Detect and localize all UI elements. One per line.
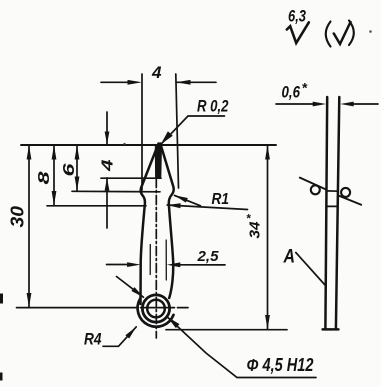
- pointer right edge: [160, 144, 173, 299]
- svg-text:0,6: 0,6: [282, 83, 301, 102]
- arrowhead leader R1 lower: [167, 203, 181, 208]
- arrowhead leader R1 upper: [174, 195, 188, 202]
- vertical centerline: [155, 179, 157, 339]
- ext lines of 2,5: [150, 240, 166, 280]
- arrowhead dim 6 top: [75, 145, 80, 160]
- hole circle d4.5: [147, 300, 165, 318]
- dim line 4 horizontal: [101, 81, 216, 83]
- ext lines of 4 horizontal: [141, 74, 143, 190]
- extension line 8 dim: [47, 205, 146, 207]
- dim 2,5 line: [107, 264, 226, 266]
- svg-text:*: *: [302, 80, 308, 96]
- dim 6 line: [76, 145, 78, 191]
- svg-text:R1: R1: [212, 191, 230, 208]
- dim 0,6 line: [276, 103, 378, 105]
- arrowhead dim 2,5 left: [127, 262, 141, 267]
- arrowhead dim 4 left: [128, 80, 143, 85]
- pointer left edge: [141, 144, 159, 305]
- arrowhead dim 0,6 left: [313, 102, 327, 107]
- roughness check 6,3: [287, 22, 309, 43]
- svg-text:2,5: 2,5: [196, 248, 219, 265]
- paren left: [326, 22, 331, 47]
- extension line bottom (34 dim): [166, 329, 287, 331]
- svg-text:A: A: [283, 247, 295, 268]
- svg-text:*: *: [246, 214, 251, 226]
- dim 34 line: [267, 145, 269, 330]
- svg-text:30: 30: [8, 206, 28, 228]
- leader R4 (shelf + diagonal): [103, 327, 136, 346]
- strip inner break ticks: [326, 191, 338, 207]
- svg-text:Φ 4,5 H12: Φ 4,5 H12: [247, 355, 314, 375]
- extension line tip-bottom (4 vert dim): [101, 177, 161, 179]
- check in parens: [334, 22, 351, 44]
- scan smudge left edge lower: [0, 373, 3, 381]
- speck right of parens: [369, 30, 372, 33]
- leader dia 4,5 H12: [167, 317, 316, 378]
- scan smudge left edge upper: [0, 294, 3, 304]
- arrowhead dim 30 bottom: [27, 293, 32, 308]
- break circle left: [311, 185, 320, 194]
- leader A: [296, 253, 326, 287]
- arrowhead dim 4vert upper: [105, 132, 110, 145]
- arrowhead leader R0,2: [161, 131, 173, 144]
- arrowhead dim 30 top: [27, 145, 32, 160]
- R4 arc: [138, 299, 174, 327]
- top reference line (tip level): [21, 144, 276, 146]
- arrowhead diagonal leader: [131, 287, 143, 297]
- horizontal centerline (also 30-dim lower extension): [17, 307, 189, 309]
- arrowhead dim 4vert lower: [105, 178, 110, 191]
- arrowhead dim 34 top: [265, 145, 270, 160]
- blackened tip: [155, 143, 162, 178]
- arrowhead dim 2,5 right: [167, 262, 181, 267]
- boss outer circle: [142, 295, 169, 322]
- arrowhead leader dia 4,5 H12: [167, 317, 180, 329]
- svg-text:4: 4: [100, 159, 117, 172]
- dim 8 line: [53, 145, 55, 206]
- svg-text:4: 4: [151, 64, 162, 82]
- leader R1 (shelf + branch): [167, 195, 247, 209]
- strip bottom cap: [323, 328, 339, 331]
- extension line 6 dim: [72, 190, 160, 193]
- svg-text:R4: R4: [84, 331, 102, 349]
- arrowhead dim 8 top: [52, 145, 57, 160]
- arrowhead leader R4: [125, 327, 136, 339]
- paren right: [349, 21, 354, 46]
- dim 4 vertical tails: [106, 112, 108, 228]
- dim 30 line: [28, 145, 30, 308]
- arrowhead dim 4 right: [176, 80, 191, 85]
- unlabeled diagonal leader to boss: [117, 277, 144, 298]
- svg-text:6,3: 6,3: [288, 7, 306, 26]
- arrowhead dim 0,6 right: [340, 102, 354, 107]
- speck near tip dim: [123, 143, 125, 145]
- arrowhead dim 8 bottom: [52, 191, 57, 206]
- arrowhead dim 6 bottom: [75, 177, 80, 192]
- break circle right: [341, 188, 350, 197]
- svg-text:R 0,2: R 0,2: [197, 97, 229, 116]
- arrowhead dim 34 bottom: [265, 315, 270, 330]
- svg-text:8: 8: [36, 171, 53, 184]
- break diagonal: [300, 178, 361, 205]
- right view: strip edges: [325, 97, 339, 329]
- svg-text:6: 6: [61, 163, 78, 176]
- leader R0,2 (shelf + diagonal): [161, 116, 225, 144]
